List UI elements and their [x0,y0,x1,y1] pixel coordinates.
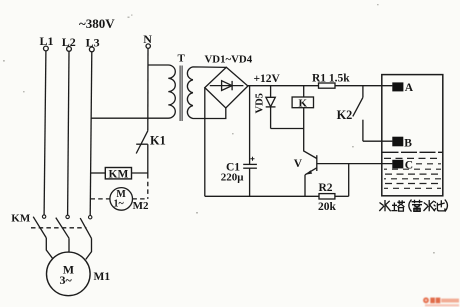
transformer T core [180,66,182,122]
svg-text:+12V: +12V [254,73,281,85]
relay K coil box [292,97,313,108]
svg-text:~380V: ~380V [79,16,115,31]
svg-text:KM: KM [109,168,129,180]
water surface line [383,151,443,153]
scan speckles [3,4,435,254]
glyph shui [379,200,390,211]
svg-text:L1: L1 [40,34,54,48]
wire K2 to electrode B [363,140,393,142]
wire N below K1 [147,144,149,174]
wire R2 right [335,195,349,197]
svg-text:T: T [178,53,186,65]
electrode B [392,137,403,147]
transformer T primary winding [91,65,175,118]
watermark logo [423,297,459,306]
switch K2 [353,86,363,142]
wire base drop to R2 [348,164,350,197]
wire +12V rail [248,85,319,87]
svg-text:R2: R2 [319,182,333,194]
glyph paren left [409,200,412,212]
contact KM pole 1 terminal [42,215,45,218]
electrode C [392,160,403,169]
svg-text:KM: KM [11,213,31,225]
glyph shui2 [424,200,435,211]
contact KM pole 3 blade [80,218,91,238]
wire relay K bottom to collector [304,108,317,159]
node N terminal [146,44,150,48]
svg-text:1~: 1~ [114,199,125,210]
svg-text:K: K [299,98,308,110]
svg-text:K2: K2 [337,108,353,122]
node L2 terminal [67,47,72,52]
glyph ta [391,200,405,211]
wire L3 vertical [90,52,92,216]
contactor coil KM box [105,168,131,179]
wire L3 to KM coil [91,172,106,174]
bridge rectifier VD1~VD4 diamond [205,67,248,108]
label water tower (reservoir) 水塔(蓄水池) [379,200,447,212]
svg-text:VD1~VD4: VD1~VD4 [205,53,253,65]
wire pole 1 to motor M1 [46,238,52,258]
wire KM coil to N [132,172,148,174]
contact KM pole 3 terminal [89,216,92,219]
glyph chi [434,200,445,211]
svg-text:V: V [294,158,303,170]
wire M2 to N dashed [132,198,147,200]
contact KM pole 2 terminal [66,215,69,218]
svg-text:VD5: VD5 [255,93,266,113]
wire R1 to electrode A [335,85,392,87]
wire L3 to M2 dashed [91,198,111,200]
transformer T secondary winding [187,67,226,119]
glyph paren right [445,200,448,212]
resistor R2 [319,194,335,199]
node L3 terminal [89,47,94,52]
svg-text:20k: 20k [318,201,337,213]
wire L1 vertical [44,51,46,215]
bridge rectifier internal diode [210,81,244,91]
svg-text:R1 1.5k: R1 1.5k [312,72,350,84]
wire base line to electrode C [317,163,393,165]
contact KM pole 1 blade [33,217,46,238]
wire pole 3 to motor M1 [86,238,92,259]
contact K1 (NC relay contact on N line) [136,131,148,154]
wire relay K top to +12V rail [303,86,305,97]
svg-text:L2: L2 [62,35,76,49]
glyph xu [412,200,423,212]
water tank outline [382,75,443,196]
svg-text:M1: M1 [94,271,111,283]
wire N dashed (to M2) [147,174,149,199]
svg-text:C: C [405,159,413,171]
svg-text:B: B [404,137,412,149]
svg-text:M2: M2 [133,200,149,212]
wire pole 2 to motor M1 [68,238,70,252]
resistor R1 [319,83,336,88]
diode VD5 [266,86,276,129]
contact KM pole 2 blade [56,218,69,239]
transistor V [305,155,317,196]
capacitor C1 [243,86,257,197]
svg-text:3~: 3~ [60,273,73,287]
motor M1 [47,252,91,296]
svg-text:N: N [143,32,152,46]
svg-text:L3: L3 [86,35,100,49]
wire 0V bottom rail [205,195,319,197]
svg-text:K1: K1 [150,134,166,148]
svg-text:A: A [405,82,414,94]
motor M2 [110,188,133,211]
electrode A [392,82,403,91]
water dashes [384,158,441,188]
wire L2 vertical [68,51,69,215]
wire bridge negative output (left corner down to 0V rail) [204,88,206,197]
wire VD5 to relay bottom [271,128,304,130]
svg-text:220μ: 220μ [221,172,245,184]
KM linkage dashed [31,227,87,229]
wire N vertical [147,48,149,130]
node L1 terminal [44,46,49,51]
